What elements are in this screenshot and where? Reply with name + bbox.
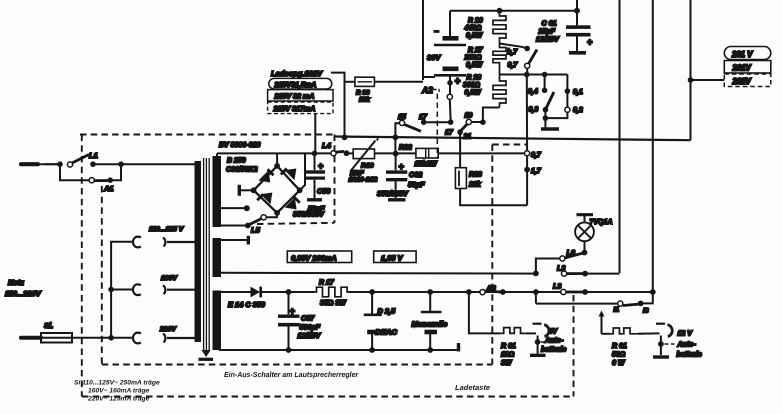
rectifier bridge B250 diamond bbox=[254, 166, 300, 213]
diode bridge top-left bbox=[259, 170, 271, 182]
node junction C57 bottom bbox=[286, 347, 292, 353]
switch i1 / i8 bbox=[638, 301, 644, 307]
wire 19 to R28 return bbox=[471, 108, 499, 123]
node measurement box 225V 31,5mA bbox=[269, 78, 332, 89]
svg-text:1,35 V: 1,35 V bbox=[381, 254, 403, 263]
node junction DEAC bottom bbox=[369, 347, 375, 353]
svg-text:50µF: 50µF bbox=[408, 180, 425, 189]
svg-text:250Ω: 250Ω bbox=[464, 55, 482, 62]
wire inner box bottom edge bbox=[102, 364, 493, 366]
node plug arc 220V bbox=[163, 334, 195, 343]
wire tap to h,7 bbox=[500, 44, 528, 49]
svg-text:3W: 3W bbox=[501, 360, 513, 367]
wire to voltage boxes bbox=[691, 79, 725, 81]
wire mains top lead bbox=[45, 163, 60, 165]
wire outer box left edge bbox=[81, 135, 83, 397]
svg-text:C62: C62 bbox=[409, 170, 422, 179]
wire inner box left edge / A1 link bbox=[101, 186, 103, 365]
svg-text:9,1: 9,1 bbox=[573, 89, 583, 96]
node terminal bar below 9,3 bbox=[541, 127, 559, 131]
svg-text:35Ω 3W: 35Ω 3W bbox=[320, 300, 347, 307]
svg-text:0,5W: 0,5W bbox=[465, 90, 482, 97]
node bridge corner bottom bbox=[274, 210, 280, 216]
wire negative rail bbox=[219, 349, 458, 351]
capacitor C57 500uF bbox=[288, 292, 290, 314]
node bridge corner right bbox=[297, 187, 303, 193]
node riser junction on bus bbox=[393, 134, 399, 140]
transformer secondary winding S1 bbox=[213, 156, 222, 227]
svg-text:440Ω: 440Ω bbox=[464, 25, 482, 32]
node junction after L1 bbox=[118, 161, 124, 167]
svg-text:R 27: R 27 bbox=[468, 47, 484, 54]
node terminal bar S2 bbox=[247, 236, 250, 245]
svg-text:17: 17 bbox=[445, 130, 454, 137]
svg-text:C57: C57 bbox=[301, 314, 315, 323]
svg-text:R 61: R 61 bbox=[612, 343, 627, 350]
svg-text:E 14 C 350: E 14 C 350 bbox=[228, 300, 266, 309]
wire voltage selector bus bbox=[111, 242, 133, 338]
lamp 7VQ1A bbox=[584, 215, 586, 223]
resistor R33 bbox=[355, 77, 375, 86]
svg-text:300Ω: 300Ω bbox=[463, 82, 480, 89]
wire 9-block right branch bbox=[545, 75, 567, 119]
wire S1 unused tap stub bbox=[221, 207, 245, 209]
svg-text:30V: 30V bbox=[427, 53, 441, 62]
wire 9,3 to terminal bbox=[544, 110, 546, 128]
svg-text:220V~ 125mA träge: 220V~ 125mA träge bbox=[87, 396, 150, 403]
svg-text:7VQ1A: 7VQ1A bbox=[590, 219, 613, 226]
node contact 1,7 bbox=[524, 167, 530, 173]
node junction C57 top bbox=[286, 289, 292, 295]
svg-text:160V: 160V bbox=[161, 275, 178, 282]
battery Monozelle bbox=[429, 292, 431, 312]
node measurement box 1,35V bbox=[374, 251, 416, 263]
svg-text:201V: 201V bbox=[732, 64, 752, 73]
svg-text:0,5W: 0,5W bbox=[466, 33, 483, 40]
svg-text:350/365V: 350/365V bbox=[377, 189, 409, 198]
svg-text:+: + bbox=[587, 37, 593, 47]
wire A2 link bracket (dashed) bbox=[434, 90, 440, 94]
wire measuring tap from Ladespg label bbox=[331, 73, 345, 136]
node: mains input terminal bottom bbox=[21, 336, 41, 340]
node terminal bar negative rail end bbox=[457, 343, 460, 352]
svg-text:225V 317mA: 225V 317mA bbox=[273, 105, 316, 113]
svg-text:1,7: 1,7 bbox=[531, 168, 542, 175]
svg-text:batterie: batterie bbox=[677, 352, 702, 359]
node junction R26 top bbox=[497, 8, 503, 14]
battery clip 12V bbox=[638, 332, 660, 334]
svg-text:12/15V: 12/15V bbox=[298, 331, 322, 340]
node measurement box 6,35V 200mA bbox=[287, 251, 351, 263]
node measurement box 201V oval bbox=[724, 47, 771, 60]
resistor R23 22k bbox=[455, 168, 466, 189]
svg-text:D 2,5: D 2,5 bbox=[378, 307, 397, 316]
svg-text:DEAC: DEAC bbox=[376, 328, 398, 337]
svg-text:350/385V: 350/385V bbox=[293, 210, 325, 219]
wire bridge right corner to HT row bbox=[300, 153, 305, 190]
svg-text:9,2: 9,2 bbox=[573, 107, 583, 114]
svg-text:Si.: Si. bbox=[44, 321, 53, 330]
resistor R61 50 ohm 6W bbox=[610, 328, 638, 334]
wire S1 tap to L5 bbox=[221, 225, 246, 227]
svg-text:Ladetaste: Ladetaste bbox=[455, 383, 490, 392]
node plug arc 160V bbox=[163, 285, 195, 294]
svg-text:6,35V 200mA: 6,35V 200mA bbox=[291, 254, 337, 263]
wire L2 to column x620 bbox=[585, 273, 619, 275]
node socket arc 110V bbox=[133, 237, 141, 248]
wire lamp bottom lead bbox=[584, 241, 586, 252]
node plug arc 110V bbox=[163, 238, 195, 247]
svg-text:22k: 22k bbox=[468, 182, 482, 189]
wire rectified row from S3 bbox=[219, 291, 251, 293]
node bridge corner left bbox=[251, 187, 257, 193]
node junction R16/R22/C62 bbox=[393, 151, 399, 157]
battery clip 6V bbox=[526, 332, 536, 334]
wire long vertical column x653 bbox=[652, 0, 654, 292]
svg-text:9,4: 9,4 bbox=[528, 89, 538, 96]
transformer secondary winding S2 bbox=[213, 238, 222, 277]
svg-text:C56: C56 bbox=[317, 187, 331, 196]
ground C61 bbox=[569, 51, 586, 55]
wire battery bottom lead bbox=[449, 75, 451, 94]
svg-text:+: + bbox=[399, 162, 405, 172]
wire S2 stub to terminal bbox=[221, 239, 247, 241]
node junction Monozelle top bbox=[427, 289, 433, 295]
svg-text:L1: L1 bbox=[89, 151, 98, 160]
svg-text:225V31,5mA: 225V31,5mA bbox=[274, 81, 317, 89]
switch contact 9,7 lower bbox=[525, 151, 530, 156]
node measurement box 225V 32mA bbox=[268, 90, 333, 101]
svg-text:C30/50K2: C30/50K2 bbox=[226, 167, 258, 174]
svg-text:R 61: R 61 bbox=[501, 343, 516, 350]
svg-text:12 V: 12 V bbox=[678, 331, 694, 338]
node junction L6 on heater row bbox=[533, 271, 539, 277]
svg-text:220V: 220V bbox=[159, 326, 177, 333]
diode bridge bottom-right bbox=[285, 197, 297, 209]
wire to switch 15 riser bbox=[395, 123, 399, 153]
node junction R61a drop bbox=[466, 289, 472, 295]
svg-text:202V: 202V bbox=[732, 77, 752, 86]
svg-text:12/15V: 12/15V bbox=[536, 35, 560, 44]
svg-text:A2: A2 bbox=[421, 85, 433, 95]
svg-text:Netz: Netz bbox=[8, 278, 24, 287]
wire L4-L5 mechanical link bbox=[257, 223, 335, 224]
capacitor C56 bbox=[314, 153, 316, 170]
node terminal bar lamp top bbox=[577, 213, 594, 216]
svg-text:A1: A1 bbox=[103, 184, 114, 193]
wire junction to transformer primary bbox=[121, 163, 195, 165]
wire R33 left lead bbox=[345, 81, 355, 83]
wire R17 to L3 region bbox=[349, 291, 561, 293]
svg-text:19: 19 bbox=[465, 113, 473, 120]
transformer secondary winding S3 bbox=[213, 291, 222, 351]
svg-text:110...220V: 110...220V bbox=[5, 289, 42, 298]
wire drop to R61 6V branch bbox=[469, 292, 501, 333]
node measurement box 225V 317mA (dashed) bbox=[268, 102, 333, 114]
node bridge corner top bbox=[274, 163, 280, 169]
svg-text:L3: L3 bbox=[553, 282, 561, 291]
svg-text:9,7: 9,7 bbox=[508, 62, 519, 69]
node junction column x653 bbox=[650, 289, 656, 295]
svg-text:R16: R16 bbox=[361, 163, 374, 170]
svg-text:h,7: h,7 bbox=[507, 49, 518, 56]
svg-text:+: + bbox=[455, 77, 461, 88]
resistor R28 300 ohm 0,5W bbox=[493, 75, 506, 108]
potentiometer R16 NSF 1610-212 bbox=[353, 149, 374, 159]
wire column x653 down to switch i8 bbox=[643, 292, 653, 303]
svg-text:i1: i1 bbox=[614, 307, 620, 314]
svg-text:L4: L4 bbox=[322, 141, 332, 150]
svg-text:0,5W: 0,5W bbox=[466, 62, 483, 69]
wire long vertical column x620 bbox=[619, 0, 621, 273]
wire bridge left AC stub bbox=[240, 189, 254, 191]
node junction before L1 bbox=[57, 161, 63, 167]
svg-text:B 250: B 250 bbox=[227, 158, 246, 165]
svg-text:6V: 6V bbox=[549, 329, 559, 336]
wire battery top lead bbox=[449, 11, 451, 37]
wire HT row from transformer S1 to bridge and C56 bbox=[217, 152, 331, 154]
resistor R27 250 ohm 0,5W bbox=[493, 44, 506, 75]
wire measurement boxes to HT node bbox=[314, 114, 316, 152]
wire inner box right edge bbox=[491, 145, 493, 365]
svg-text:L5: L5 bbox=[251, 226, 261, 235]
wire measuring column 9,7 / 1,7 bbox=[526, 75, 528, 151]
node selector bus 160V junction bbox=[108, 287, 114, 293]
wire R33 right lead to battery column bbox=[374, 81, 423, 83]
diode bridge bottom-left bbox=[261, 193, 273, 205]
wire external feed column bbox=[422, 0, 424, 80]
wire C61 column from top edge bbox=[576, 0, 578, 25]
wire Ladetaste box top edge bbox=[492, 144, 527, 146]
svg-text:110...125 V: 110...125 V bbox=[149, 226, 185, 233]
fuse Si bbox=[41, 333, 72, 343]
transformer core bbox=[203, 158, 205, 350]
wire top rail bbox=[450, 10, 577, 12]
wire A1 branch down-left bbox=[60, 164, 89, 180]
svg-text:Auto-: Auto- bbox=[544, 338, 564, 345]
node junction C61 top bbox=[574, 8, 580, 14]
node junction C56 / measuring line bbox=[312, 151, 318, 157]
wire R22 to contact 9,7 bbox=[438, 152, 524, 154]
wire R23 bottom return to measuring column bbox=[460, 189, 527, 206]
switch contact 21 bbox=[457, 129, 463, 135]
node measurement box 201V bbox=[724, 61, 771, 74]
svg-text:Ein-Aus-Schalter am Lautsprech: Ein-Aus-Schalter am Lautsprecherregler bbox=[224, 372, 359, 379]
svg-text:18Ω: 18Ω bbox=[501, 352, 515, 359]
node terminal bar bridge left bbox=[238, 185, 241, 196]
svg-text:15k2W: 15k2W bbox=[415, 161, 439, 168]
wire outer box bottom edge (Ladetaste) bbox=[82, 396, 573, 398]
svg-text:R 33: R 33 bbox=[356, 90, 370, 97]
wire fuse to selector bus bbox=[72, 337, 111, 339]
wire L6 to heater row bbox=[536, 259, 560, 274]
wire L4 mechanical link bbox=[334, 135, 336, 223]
resistor R61 18 ohm 3W bbox=[501, 328, 526, 334]
wire long vertical column x690 bbox=[690, 0, 692, 140]
resistor R26 440 ohm 0,5W bbox=[493, 11, 506, 44]
wire L4 to R16 bbox=[347, 152, 354, 154]
switch contact A2 on battery line bbox=[447, 94, 452, 99]
svg-text:Si 110...125V~ 250mA träge: Si 110...125V~ 250mA träge bbox=[74, 380, 160, 387]
wire i1 to A3 row bbox=[536, 303, 618, 305]
node socket arc 220V bbox=[133, 333, 141, 344]
wire A1 branch up-right bbox=[110, 164, 121, 180]
diode E14 C350 bbox=[251, 287, 261, 298]
svg-text:R 17: R 17 bbox=[319, 280, 335, 287]
wire L3 to column x653 bbox=[585, 291, 653, 293]
svg-text:R 28: R 28 bbox=[467, 75, 482, 82]
svg-text:R23: R23 bbox=[469, 172, 482, 179]
wire 17 to battery column bbox=[424, 121, 451, 123]
switch A1 bbox=[89, 178, 94, 183]
switch L1 bbox=[67, 162, 72, 167]
wire bus below R27 bbox=[500, 74, 568, 76]
switch blade 9,4-9,3 bbox=[545, 92, 554, 110]
node junction feed i1 bbox=[533, 289, 539, 295]
wire outer box top edge bbox=[80, 134, 334, 136]
svg-text:i8: i8 bbox=[643, 308, 649, 315]
node socket arc 160V bbox=[133, 284, 141, 295]
node battery junction bbox=[447, 80, 453, 86]
svg-text:160V~ 160mA träge: 160V~ 160mA träge bbox=[88, 388, 150, 395]
node junction DEAC top bbox=[369, 289, 375, 295]
svg-text:225V 32 mA: 225V 32 mA bbox=[274, 93, 315, 101]
wire R16 to R22 bbox=[375, 152, 416, 154]
wire HT bus horizontal bbox=[334, 137, 691, 141]
node junction bus / 9-block left bbox=[524, 72, 530, 78]
node: mains input terminal top bbox=[21, 162, 38, 166]
node junction Monozelle bottom bbox=[427, 347, 433, 353]
svg-text:1610-212: 1610-212 bbox=[349, 177, 378, 184]
wire 21 down to R23 bbox=[459, 132, 461, 168]
svg-text:−: − bbox=[434, 27, 439, 36]
svg-text:50Ω: 50Ω bbox=[612, 352, 626, 359]
wire 12V arrow riser bbox=[599, 311, 605, 317]
ground core arrow bbox=[202, 350, 211, 357]
svg-text:9,3: 9,3 bbox=[529, 107, 539, 114]
svg-text:9,7: 9,7 bbox=[531, 152, 542, 159]
wire L1 to junction bbox=[93, 163, 121, 165]
node measurement box 202V (dashed) bbox=[724, 74, 771, 87]
wire diode to R17 bbox=[261, 291, 314, 293]
svg-text:Auto-: Auto- bbox=[677, 342, 697, 349]
transformer primary winding bbox=[195, 161, 202, 342]
svg-text:BV 8080-016: BV 8080-016 bbox=[219, 142, 260, 149]
svg-text:10k: 10k bbox=[359, 97, 370, 104]
battery DEAC D2,5 bbox=[371, 292, 373, 314]
node stub dot bbox=[244, 205, 250, 211]
svg-text:R22: R22 bbox=[399, 145, 412, 152]
svg-text:Ladespg.102V: Ladespg.102V bbox=[271, 69, 323, 78]
switch L5 bbox=[245, 223, 251, 229]
wire 220V tap feed bbox=[111, 337, 133, 339]
wire Ladetaste box right edge bbox=[573, 295, 575, 397]
capacitor C62 bbox=[395, 154, 397, 171]
wire 160V tap feed bbox=[111, 289, 133, 291]
svg-text:201 V: 201 V bbox=[731, 50, 753, 59]
svg-text:R 26: R 26 bbox=[468, 18, 483, 25]
diode bridge top-right bbox=[285, 168, 297, 180]
svg-text:+: + bbox=[318, 161, 324, 171]
wire heater row 6,35V bbox=[219, 272, 536, 275]
node selector bus bottom junction bbox=[108, 335, 114, 341]
node junction 202V box feed bbox=[688, 77, 694, 83]
svg-text:6 W: 6 W bbox=[612, 360, 626, 367]
svg-text:Monozelle: Monozelle bbox=[412, 320, 448, 329]
wire bridge top corner to HT row bbox=[276, 153, 278, 166]
wire L5 to bridge bottom bbox=[266, 212, 277, 217]
wire A2 mechanical link (dashed) bbox=[436, 94, 438, 159]
wire feed to battery plus bbox=[423, 76, 435, 78]
node measuring tap dot on bus bbox=[342, 134, 348, 140]
svg-text:batterie: batterie bbox=[541, 347, 566, 354]
